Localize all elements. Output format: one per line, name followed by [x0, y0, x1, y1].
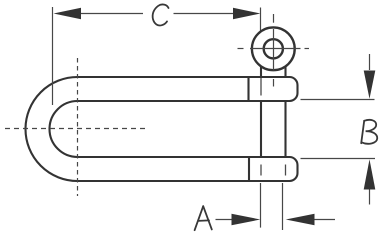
- pin neck under head: [261, 60, 286, 78]
- dimension C left arrowhead: [54, 8, 82, 20]
- dimension A right arrowhead: [286, 214, 315, 226]
- pin head horizontal center line: [238, 48, 310, 50]
- bottom ear boss line: [248, 157, 250, 181]
- shackle bow outer arc: [26, 77, 78, 181]
- extension line A right: [282, 183, 284, 230]
- extension line C left: [52, 7, 54, 105]
- dimension B top arrow tail: [369, 54, 371, 70]
- dimension C right arrowhead: [233, 8, 260, 20]
- pin hidden lines in bottom ear: [261, 165, 286, 176]
- pin head outer circle: [252, 27, 295, 70]
- bow horizontal center line: [5, 128, 149, 130]
- bow vertical tangent dashed line: [77, 58, 79, 196]
- bottom leg / ear outline: [77, 157, 298, 181]
- dimension B bottom arrow tail: [369, 190, 371, 205]
- shackle bow inner arc: [50, 101, 78, 157]
- dimension C line right segment: [174, 13, 235, 15]
- top ear boss line: [247, 77, 249, 101]
- dimension A right tail: [315, 219, 336, 221]
- dimension C line left segment: [80, 13, 143, 15]
- top leg / ear outline: [77, 77, 298, 101]
- pin head inner circle: [264, 39, 283, 58]
- extension line B top: [301, 99, 375, 101]
- label B: [361, 120, 377, 144]
- dimension A left tail: [216, 219, 233, 221]
- extension line A left: [260, 183, 262, 228]
- pin hidden line in top ear: [260, 78, 262, 96]
- extension line C right (pin edge extended): [260, 8, 262, 32]
- extension line B bottom: [301, 158, 376, 160]
- label A: [195, 206, 212, 230]
- pin shank between ears: [261, 100, 286, 158]
- dimension B bottom arrowhead: [364, 159, 376, 189]
- label C: [153, 4, 169, 25]
- dimension A left arrowhead: [232, 214, 261, 226]
- dimension B top arrowhead: [364, 71, 376, 99]
- pin vertical center line: [273, 14, 275, 87]
